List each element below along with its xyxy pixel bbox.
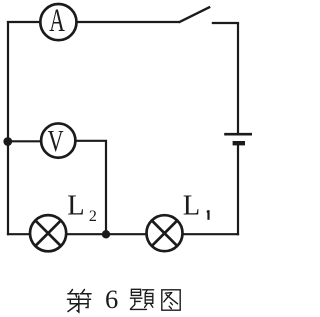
label L2 [67, 191, 97, 225]
lamp L1 [147, 215, 183, 251]
switch S (open) lever [179, 7, 211, 23]
svg-text:2: 2 [89, 208, 97, 225]
battery short plate (-) [233, 141, 245, 145]
svg-text:6: 6 [105, 284, 118, 314]
junction node between lamps [102, 230, 110, 238]
junction node on left wire (voltmeter tap) [3, 137, 12, 146]
caption: 第 [68, 290, 92, 313]
wire top: corner through ammeter to switch pivot [7, 21, 179, 23]
wire right vertical upper (to battery) [237, 23, 239, 133]
wire voltmeter loop: right of V then down to node [72, 141, 106, 234]
voltmeter V [41, 123, 75, 158]
wire right vertical lower (battery to bottom corner) [237, 145, 239, 236]
battery long plate (+) [224, 133, 252, 136]
label L1 [183, 191, 209, 222]
svg-text:L: L [183, 191, 200, 222]
svg-text:A: A [49, 3, 65, 39]
wire left vertical [7, 21, 9, 235]
svg-text:L: L [67, 191, 84, 222]
svg-text:V: V [48, 124, 64, 158]
wire switch contact to top-right corner [212, 22, 239, 24]
wire voltmeter branch horizontal [8, 140, 44, 142]
ammeter A [40, 3, 76, 40]
lamp L2 [30, 215, 66, 251]
wire bottom rail [7, 233, 239, 235]
caption: 题 [130, 289, 153, 309]
caption: 图 [162, 290, 180, 310]
